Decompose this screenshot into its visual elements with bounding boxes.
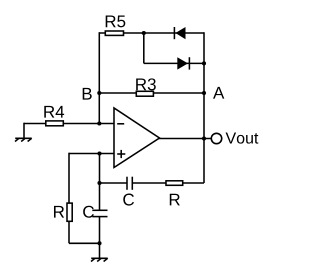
node B junction dot	[97, 91, 101, 95]
wire left shunt branch vertical x=69	[68, 153, 70, 244]
label R3	[136, 78, 156, 90]
wire inverting input y=123.5 from ground stem through R4 to op-amp	[24, 123, 114, 125]
capacitor C (shunt to ground, vertical)	[92, 210, 107, 216]
wire series branch y=183 from capacitor through R to right vertical	[132, 182, 204, 184]
wire diode-loop bottom branch y=63.4	[144, 62, 204, 64]
wire bottom horizontal joining shunt R to node x=99 y=243.3	[69, 242, 100, 244]
wire op-amp output y=138.5 to Vout terminal	[158, 138, 211, 140]
label R5	[106, 16, 126, 28]
node B label	[83, 88, 92, 100]
junction dot non-inverting input	[97, 151, 101, 155]
label C (series capacitor)	[123, 194, 134, 206]
node A junction dot	[202, 91, 206, 95]
resistor R (shunt to ground, vertical)	[67, 203, 72, 221]
capacitor C (series, bottom)	[127, 177, 132, 190]
junction dot diode loop top	[142, 31, 146, 35]
junction dot bottom shunt node	[97, 241, 101, 245]
wire series branch y=183 left segment to capacitor	[100, 182, 128, 184]
resistor R4	[46, 121, 64, 126]
wire top net y=33 from R5 corner to right vertical	[99, 32, 204, 34]
wire node B to node A y=93	[99, 92, 204, 94]
ground (bottom, at shunt RC)	[91, 258, 108, 261]
op-amp U1	[114, 108, 160, 168]
label C (shunt capacitor)	[83, 206, 94, 218]
node A label	[213, 87, 224, 99]
wire diode-loop left vertical x=143.8	[143, 33, 145, 63]
junction dot series branch tap	[97, 181, 101, 185]
wire ground1 stem x=24	[23, 123, 25, 139]
output terminal circle Vout	[211, 133, 221, 143]
junction dot diode loop bottom at right vertical	[202, 61, 206, 65]
resistor R3	[136, 91, 153, 96]
wire non-inverting input y=153.5	[69, 153, 114, 155]
junction dot inverting input	[97, 121, 101, 125]
wire x=99.5 from non-inverting node down to shunt capacitor top plate	[99, 154, 101, 211]
label R4	[44, 106, 64, 118]
ground (left, at R4)	[15, 138, 32, 141]
resistor R (series feedback, bottom)	[166, 181, 183, 186]
wire right vertical x=204 from top corner down to feedback corner	[203, 32, 205, 183]
resistor R5	[105, 31, 123, 35]
diode D2 (bottom, pointing right)	[177, 57, 189, 69]
label Vout	[226, 132, 259, 143]
label R (series resistor)	[170, 194, 180, 206]
label R (shunt resistor)	[54, 206, 64, 218]
wire x=99.5 from shunt capacitor bottom plate down to ground2	[99, 217, 101, 259]
wire left vertical x=99.5 from top corner to inverting-input node	[98, 32, 100, 123]
junction dot output / Vout	[202, 136, 206, 140]
diode D1 (top, pointing left)	[174, 27, 185, 39]
